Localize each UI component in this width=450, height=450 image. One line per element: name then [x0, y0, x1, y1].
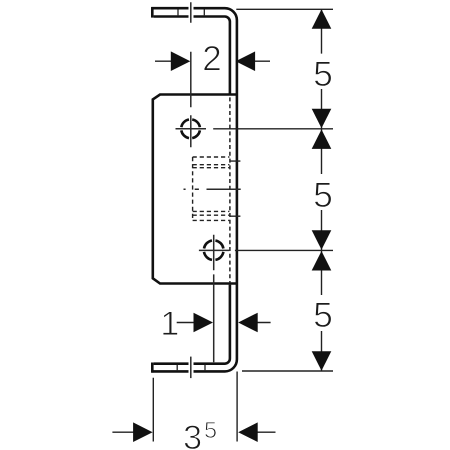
arrow dim2 right-pointing: [171, 51, 191, 71]
centerline bottom hole (vertical): [213, 235, 215, 362]
arrow dim5a up: [312, 9, 332, 29]
top flange inner edge + web left surface (visible part): [154, 17, 230, 95]
dim 35 extension lines: [153, 372, 237, 442]
arrow dim35 right-pointing: [133, 422, 153, 442]
centerline top hole (vertical, long-dash): [176, 2, 241, 378]
top flange outer edge + web right surface + bottom flange outer edge: [151, 8, 237, 371]
bottom flange left end cap: [151, 363, 154, 373]
svg-text:2: 2: [202, 40, 221, 79]
arrowheads (filled): [133, 9, 331, 442]
top flange left end cap: [151, 7, 154, 18]
slot centerline (horizontal dot-dash): [184, 188, 241, 190]
svg-text:1: 1: [160, 305, 179, 343]
hole top (circle arcs): [181, 120, 200, 139]
hidden slot rectangle (dashed): [193, 157, 230, 220]
extension line top hole to dimension: [213, 128, 333, 130]
extension and dimension lines (thin): [112, 9, 333, 441]
vertical dimension line segments x=321.5: [321, 9, 323, 370]
svg-text:3: 3: [183, 419, 202, 450]
svg-text:5: 5: [313, 295, 333, 335]
arrow dim1 left-pointing: [238, 313, 258, 333]
crosshair top hole (horizontal): [176, 128, 207, 130]
arrow dim5b down: [312, 230, 332, 250]
arrow dim5b up-tip: [312, 129, 332, 149]
dim 2 tails: [155, 60, 270, 62]
bracket profile outline (thick): [151, 7, 237, 373]
arrow dim5c up-tip: [312, 251, 332, 271]
arrow dim5c down: [312, 351, 332, 371]
arrow dim2 left-pointing: [236, 51, 256, 71]
mounting plate with chamfered left corners: [153, 95, 237, 284]
centerline bottom flange tick: [190, 357, 192, 379]
bottom flange inner edge + web left surface (visible part): [154, 285, 230, 364]
arrow dim35 left-pointing: [238, 422, 258, 442]
dim 1 tails: [177, 322, 271, 324]
hidden slot edges across web: [230, 161, 240, 216]
dim 35 tails: [112, 431, 275, 433]
arrow dim5a down: [312, 109, 332, 129]
extension line bottom (flange bottom edge): [242, 370, 333, 372]
svg-text:5: 5: [204, 417, 217, 443]
extension line top (flange top edge): [236, 8, 333, 10]
crosshair bottom hole (horizontal): [199, 249, 229, 251]
hole bottom (circle arcs): [204, 241, 223, 260]
flange section tick marks (thin): [177, 9, 205, 370]
arrow dim1 right-pointing: [194, 313, 214, 333]
svg-text:5: 5: [313, 54, 333, 94]
extension line bottom hole to dimension: [235, 249, 333, 251]
hidden web left surface (dashed): [229, 97, 231, 283]
svg-text:5: 5: [313, 175, 333, 215]
